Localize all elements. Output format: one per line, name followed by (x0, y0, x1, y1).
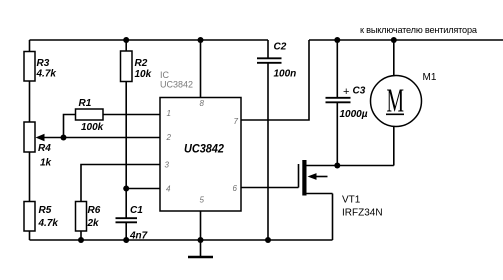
svg-text:4: 4 (166, 185, 171, 194)
node R2 top (123, 37, 129, 43)
wire R1 left to wiper node (64, 115, 76, 138)
svg-text:C1: C1 (130, 205, 143, 216)
wire pin 3 to R6 (81, 165, 160, 202)
potentiometer R4 (24, 122, 52, 169)
wire motor bottom (393, 127, 395, 166)
svg-text:2: 2 (166, 133, 172, 142)
node motor top (391, 37, 397, 43)
svg-text:6: 6 (233, 184, 238, 193)
wire pin 7 to top-right rail (241, 40, 309, 120)
wire C1 bottom (125, 223, 127, 240)
wire R2 bottom to C1 (125, 82, 127, 218)
wire motor top (393, 40, 395, 76)
node ground rail (198, 237, 204, 243)
svg-text:2k: 2k (87, 218, 100, 229)
capacitor C2 (257, 40, 296, 80)
svg-text:M1: M1 (423, 72, 437, 83)
svg-text:C3: C3 (353, 86, 366, 97)
svg-text:R5: R5 (39, 205, 52, 216)
svg-text:R6: R6 (88, 205, 101, 216)
svg-text:1: 1 (167, 109, 171, 118)
wire top-right rail (309, 39, 503, 41)
wire bottom rail (30, 239, 333, 241)
svg-text:4.7k: 4.7k (38, 218, 59, 229)
node drain (334, 163, 340, 169)
wire R2 top (125, 40, 127, 51)
resistor R6 (76, 202, 101, 232)
wire C2 bottom to bottom rail (267, 64, 269, 241)
wire R4 to R5 (29, 152, 31, 202)
wire top-left rail (30, 39, 269, 41)
resistor R1 (76, 98, 104, 133)
node wiper junction (61, 135, 67, 141)
wire pin 5 to bottom rail (200, 211, 202, 240)
svg-text:1000µ: 1000µ (340, 109, 368, 120)
node RC pin4 (123, 186, 129, 192)
label IC UC3842 (160, 70, 193, 90)
svg-text:4.7k: 4.7k (36, 69, 57, 80)
svg-text:+: + (343, 86, 349, 98)
svg-text:1k: 1k (40, 158, 52, 169)
wire pin 8 to top rail (200, 40, 202, 98)
svg-text:C2: C2 (274, 42, 287, 53)
op-amp U1 UC3842 body (160, 98, 241, 212)
wire R5 to bottom rail (29, 231, 31, 240)
node C1 bottom (123, 237, 129, 243)
wire R3 to R4 (29, 81, 31, 122)
svg-text:R4: R4 (38, 143, 51, 154)
svg-text:100k: 100k (81, 122, 104, 133)
svg-text:IRFZ34N: IRFZ34N (342, 208, 383, 219)
svg-text:10k: 10k (135, 69, 152, 80)
wire pin 6 to gate (241, 187, 299, 189)
wire left branch R3 top (29, 40, 31, 52)
svg-text:4n7: 4n7 (129, 231, 148, 242)
transistor Q1 VT1 IRFZ34N (299, 160, 394, 240)
node pin8 top (198, 37, 204, 43)
svg-text:VT1: VT1 (342, 195, 361, 206)
wire R1 right to pin 1 (103, 114, 160, 116)
ground (188, 240, 213, 257)
capacitor C1 (116, 205, 148, 242)
svg-text:UC3842: UC3842 (160, 80, 193, 90)
svg-text:8: 8 (200, 99, 205, 108)
svg-text:UC3842: UC3842 (184, 142, 224, 156)
wire R6 bottom (80, 231, 82, 240)
svg-text:5: 5 (200, 196, 205, 205)
svg-text:R3: R3 (37, 58, 50, 69)
wire pin 4 to RC node (126, 188, 160, 190)
resistor R5 (24, 202, 58, 232)
wire C3 bottom to drain node (336, 103, 338, 166)
motor M1 (371, 72, 437, 127)
node C3 top (334, 37, 340, 43)
svg-text:100n: 100n (274, 69, 297, 80)
svg-text:IC: IC (160, 70, 170, 80)
svg-text:к выключателю вентилятора: к выключателю вентилятора (360, 25, 478, 35)
capacitor C3 (326, 40, 368, 120)
svg-text:3: 3 (165, 161, 170, 170)
wire wiper node to pin 2 (64, 137, 161, 139)
svg-text:R1: R1 (79, 98, 92, 109)
svg-text:7: 7 (234, 117, 239, 126)
resistor R3 (24, 52, 56, 82)
node C2 bottom (265, 237, 271, 243)
node R6 bottom (78, 237, 84, 243)
svg-text:R2: R2 (135, 58, 148, 69)
wiper arrow of R4 (36, 134, 64, 141)
resistor R2 (121, 51, 152, 82)
